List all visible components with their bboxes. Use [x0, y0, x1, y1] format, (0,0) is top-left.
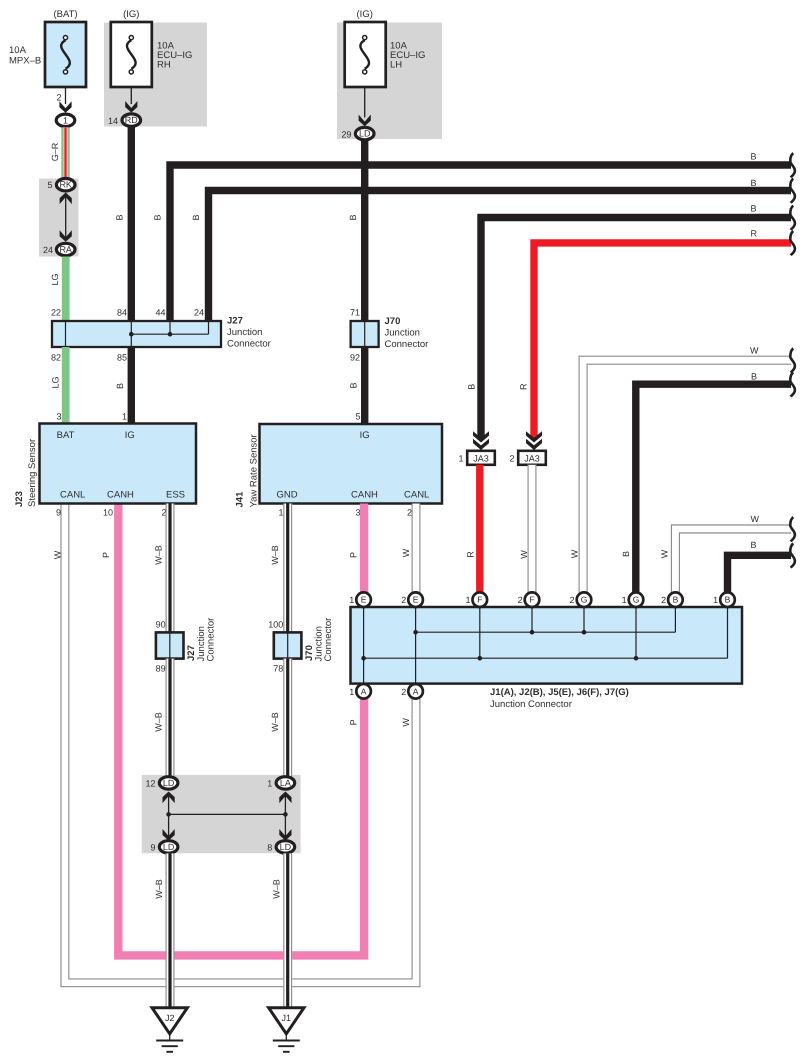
svg-text:B: B: [673, 595, 679, 605]
wire W-B from LD 9 to ground J2: [166, 853, 175, 1007]
svg-text:1: 1: [63, 115, 68, 125]
svg-text:29: 29: [341, 129, 351, 139]
svg-text:E: E: [413, 595, 419, 605]
svg-text:W: W: [519, 550, 529, 559]
svg-text:LH: LH: [390, 60, 402, 71]
svg-text:B: B: [467, 384, 477, 390]
svg-text:Steering Sensor: Steering Sensor: [27, 439, 38, 507]
svg-text:(IG): (IG): [123, 9, 139, 20]
svg-text:1: 1: [267, 778, 272, 788]
svg-text:G–R: G–R: [50, 142, 60, 161]
svg-text:J1: J1: [282, 1013, 292, 1023]
svg-text:ESS: ESS: [166, 490, 185, 501]
ground J1: [269, 1008, 304, 1034]
fuse 10A ECU-IG LH: [345, 22, 386, 87]
svg-text:8: 8: [267, 842, 272, 852]
svg-text:B: B: [191, 214, 201, 220]
svg-text:W: W: [659, 549, 669, 558]
svg-text:24: 24: [43, 245, 53, 255]
svg-text:J23: J23: [14, 491, 25, 507]
ground J2: [152, 1008, 187, 1034]
svg-text:100: 100: [268, 620, 283, 630]
svg-text:1: 1: [122, 412, 127, 422]
fuse 10A ECU-IG RH: [111, 22, 152, 87]
wire W from J41 CANL pin 2 to junction 2E: [412, 504, 421, 593]
connector LA pin 1: [276, 777, 295, 789]
svg-text:Connector: Connector: [323, 618, 334, 662]
pin 2 arrow into connector oval 1: [65, 87, 67, 104]
svg-text:R: R: [751, 229, 758, 239]
svg-text:P: P: [101, 552, 111, 558]
connector LD pin 12: [159, 777, 178, 789]
svg-text:CANH: CANH: [107, 490, 134, 501]
junction bottom pins A: [356, 684, 371, 699]
svg-text:Junction: Junction: [227, 327, 262, 338]
svg-text:B: B: [751, 540, 757, 550]
svg-text:JA3: JA3: [473, 454, 489, 464]
svg-text:82: 82: [51, 353, 61, 363]
svg-text:W: W: [53, 550, 63, 559]
svg-text:5: 5: [47, 180, 52, 190]
svg-text:W–B: W–B: [154, 712, 164, 732]
svg-text:92: 92: [350, 353, 360, 363]
wire W from right edge to junction 2G: [579, 356, 791, 592]
svg-text:F: F: [477, 595, 482, 605]
svg-text:E: E: [361, 595, 367, 605]
wire B from J27 pin 44 to right edge: [170, 165, 791, 321]
svg-text:W–B: W–B: [270, 545, 280, 565]
svg-text:MPX–B: MPX–B: [9, 56, 41, 67]
svg-text:LA: LA: [280, 778, 291, 788]
svg-text:A: A: [361, 686, 367, 696]
svg-text:B: B: [348, 214, 358, 220]
svg-text:G: G: [581, 595, 588, 605]
wire P from J41 CANH pin 3 to junction 1E: [360, 504, 368, 593]
shaded block around fuse ECU-IG LH: [337, 23, 442, 140]
svg-text:J27: J27: [227, 316, 243, 327]
shaded block around connectors LD/LA: [142, 775, 301, 853]
svg-text:B: B: [751, 203, 757, 213]
svg-text:2: 2: [570, 595, 575, 605]
svg-text:RH: RH: [157, 60, 171, 71]
svg-text:2: 2: [401, 595, 406, 605]
wire B from J27 pin 24 to right edge: [209, 191, 792, 322]
svg-text:2: 2: [518, 595, 523, 605]
component J23 Steering Sensor: [40, 424, 197, 504]
svg-text:14: 14: [108, 116, 118, 126]
svg-text:RD: RD: [125, 115, 138, 125]
wire R from JA3-1 to junction 1F: [476, 465, 483, 593]
svg-text:84: 84: [117, 308, 127, 318]
svg-text:IG: IG: [360, 430, 370, 441]
svg-text:A: A: [413, 686, 419, 696]
svg-text:RK: RK: [59, 180, 72, 190]
svg-text:F: F: [529, 595, 534, 605]
svg-text:P: P: [348, 719, 358, 725]
svg-text:B: B: [751, 151, 757, 161]
svg-text:BAT: BAT: [57, 430, 75, 441]
svg-text:1: 1: [458, 454, 463, 464]
component J41 Yaw Rate Sensor: [260, 424, 443, 504]
svg-text:1: 1: [349, 687, 354, 697]
svg-text:LG: LG: [50, 376, 60, 388]
svg-text:RA: RA: [59, 245, 72, 255]
connector oval LD: [355, 127, 374, 139]
svg-text:W: W: [569, 549, 579, 558]
svg-text:1: 1: [622, 595, 627, 605]
wire P from J23 CANH pin 10 routed to junction 1A: [118, 504, 364, 956]
wire B from fuse LD oval to J70 pin 71: [361, 140, 368, 321]
svg-text:Yaw Rate Sensor: Yaw Rate Sensor: [249, 434, 260, 507]
svg-text:J2: J2: [165, 1013, 175, 1023]
svg-text:W: W: [750, 345, 759, 355]
connector JA3 instance 1: [473, 431, 489, 442]
svg-text:W–B: W–B: [154, 545, 164, 565]
svg-text:(BAT): (BAT): [53, 9, 77, 20]
svg-text:W–B: W–B: [154, 879, 164, 899]
svg-text:W–B: W–B: [270, 712, 280, 732]
wire B from right edge to junction 1G: [636, 384, 791, 592]
junction connector J70 (GND line): [274, 632, 302, 658]
wire LG from J27 pin 82 to J23 BAT pin 3: [62, 347, 70, 424]
connector LD pin 9: [159, 841, 178, 853]
svg-text:LD: LD: [359, 129, 371, 139]
svg-text:10: 10: [103, 508, 113, 518]
svg-text:W: W: [401, 548, 411, 557]
svg-text:10A: 10A: [9, 45, 27, 56]
links between LD/LA connectors: [168, 793, 170, 838]
svg-text:CANL: CANL: [404, 490, 429, 501]
svg-text:IG: IG: [125, 430, 135, 441]
svg-text:W: W: [751, 514, 760, 524]
svg-text:85: 85: [117, 353, 127, 363]
wire B from right edge to junction 1B: [728, 555, 792, 592]
svg-text:2: 2: [407, 508, 412, 518]
svg-text:B: B: [114, 214, 124, 220]
wire W from right edge to junction 2B: [671, 525, 791, 592]
svg-text:24: 24: [194, 308, 204, 318]
svg-text:CANH: CANH: [351, 490, 378, 501]
svg-text:2: 2: [401, 687, 406, 697]
svg-text:1: 1: [713, 595, 718, 605]
svg-text:J1(A), J2(B), J5(E), J6(F), J7: J1(A), J2(B), J5(E), J6(F), J7(G): [490, 687, 629, 698]
pin 29 arrow into oval LD: [364, 87, 366, 118]
wire W-B from small J27 to connector LD 12: [166, 659, 175, 777]
svg-text:G: G: [633, 595, 640, 605]
wire W-B from LD 8 to ground J1: [283, 853, 292, 1007]
svg-text:LD: LD: [163, 842, 175, 852]
svg-text:Connector: Connector: [385, 339, 429, 350]
svg-text:P: P: [348, 552, 358, 558]
svg-text:90: 90: [156, 620, 166, 630]
svg-text:W: W: [401, 718, 411, 727]
svg-text:(IG): (IG): [357, 9, 373, 20]
wire W-B from J41 GND pin 1 to small J70: [283, 504, 292, 633]
svg-text:J41: J41: [235, 491, 246, 508]
svg-text:3: 3: [355, 508, 360, 518]
svg-text:LD: LD: [163, 778, 175, 788]
svg-text:Connector: Connector: [227, 339, 271, 350]
svg-text:LD: LD: [280, 842, 292, 852]
wire B from right edge to JA3 connector 1: [481, 218, 791, 440]
wire B from J27 pin 85 to J23 IG pin 1: [128, 347, 135, 424]
connector JA3 instance 2: [526, 431, 542, 442]
svg-text:B: B: [751, 372, 757, 382]
junction connector J70: [351, 321, 379, 347]
arrows between RK and RA: [65, 196, 67, 237]
svg-text:1: 1: [465, 595, 470, 605]
svg-text:22: 22: [51, 308, 61, 318]
connector RA pin 24: [56, 243, 75, 255]
svg-text:71: 71: [350, 308, 360, 318]
wire LG from RA to J27 pin 22: [62, 257, 70, 322]
svg-text:1: 1: [278, 508, 283, 518]
junction connector J27: [52, 321, 221, 347]
junction connector J27 (ESS line): [156, 632, 184, 658]
svg-text:R: R: [466, 551, 476, 558]
svg-text:B: B: [115, 383, 125, 389]
svg-text:78: 78: [273, 664, 283, 674]
svg-text:3: 3: [56, 412, 61, 422]
svg-text:89: 89: [156, 664, 166, 674]
wire G-R from oval 1 to connector RK: [61, 127, 69, 178]
fuse 10A MPX-B: [45, 22, 86, 87]
svg-text:Junction Connector: Junction Connector: [490, 699, 572, 710]
pin 14 arrow into oval RD: [130, 87, 132, 104]
connector RK pin 5: [56, 179, 75, 191]
wire W from J23 CANL pin 9 routed to junction 2A: [61, 504, 420, 987]
svg-text:5: 5: [355, 412, 360, 422]
wire W-B from small J70 to connector LA 1: [283, 659, 292, 777]
svg-text:B: B: [751, 178, 757, 188]
svg-text:LG: LG: [50, 273, 60, 285]
continuation squiggles at right edge: [790, 153, 795, 177]
svg-text:B: B: [621, 551, 631, 557]
svg-text:B: B: [348, 382, 358, 388]
svg-text:W–B: W–B: [272, 879, 282, 899]
svg-text:2: 2: [509, 454, 514, 464]
svg-text:Junction: Junction: [385, 328, 420, 339]
connector oval RD: [122, 114, 141, 126]
connector LD pin 8: [276, 841, 295, 853]
svg-text:9: 9: [150, 842, 155, 852]
svg-text:R: R: [518, 383, 528, 390]
svg-text:CANL: CANL: [60, 490, 85, 501]
shaded block around fuse ECU-IG RH: [104, 23, 207, 127]
shaded block around connectors RK/RA: [39, 179, 79, 257]
svg-text:GND: GND: [277, 490, 298, 501]
junction connector J1(A), J2(B), J5(E), J6(F), J7(G): [351, 607, 743, 684]
svg-text:12: 12: [145, 778, 155, 788]
svg-text:JA3: JA3: [524, 454, 540, 464]
wire B from J70 pin 92 to J41 IG pin 5: [361, 347, 368, 424]
svg-text:J70: J70: [385, 316, 401, 327]
svg-text:B: B: [725, 595, 731, 605]
svg-text:2: 2: [56, 93, 61, 103]
connector oval 1: [56, 114, 75, 126]
wire W from JA3-2 to junction 2F: [528, 465, 537, 593]
svg-text:9: 9: [56, 508, 61, 518]
svg-text:2: 2: [661, 595, 666, 605]
wire W-B from J23 ESS pin 2 to small J27: [166, 504, 175, 633]
wire R from right edge to JA3 connector 2: [534, 243, 791, 440]
junction top pins E F G B: [356, 592, 371, 607]
svg-text:B: B: [152, 214, 162, 220]
svg-text:1: 1: [349, 595, 354, 605]
svg-text:Connector: Connector: [206, 618, 217, 662]
svg-text:44: 44: [155, 308, 165, 318]
wire B from fuse RD oval to J27 pin 84: [128, 127, 135, 321]
